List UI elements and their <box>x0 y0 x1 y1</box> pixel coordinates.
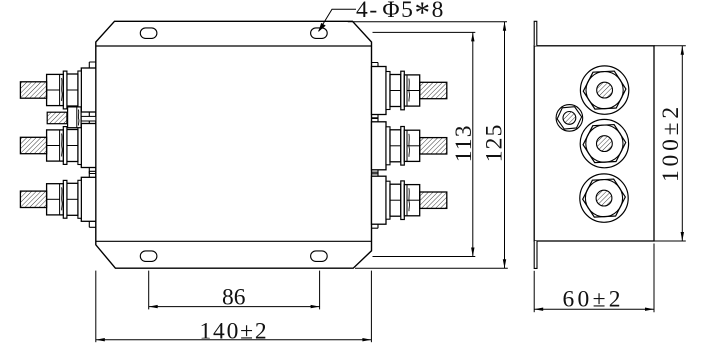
extension line 140 left <box>95 271 97 343</box>
ground stud outer circle <box>556 105 583 132</box>
mounting slot top-left <box>140 28 157 39</box>
extension line 60 left <box>533 271 535 312</box>
ground nut facet divider <box>76 107 78 128</box>
dimension line 100+-2 <box>681 46 683 241</box>
ground stud shaft <box>47 112 67 124</box>
bolt circle 1 <box>580 66 628 114</box>
bolt circle 2 <box>580 119 628 167</box>
ground stud cross-section (hatched) <box>563 112 576 125</box>
ground stud hex nut <box>68 107 82 128</box>
extension line 100 top <box>654 45 686 47</box>
terminal R3 <box>372 172 447 228</box>
svg-text:140±2: 140±2 <box>200 318 269 344</box>
extension line 140 right <box>370 271 372 343</box>
dimension line 113 <box>472 32 474 256</box>
dimension line 140 <box>96 339 372 341</box>
svg-text:60±2: 60±2 <box>563 286 624 312</box>
ground stud shank <box>81 116 96 121</box>
mounting slot top-right <box>311 28 328 39</box>
side body rectangle <box>534 46 654 241</box>
svg-text:113: 113 <box>451 124 477 162</box>
chassis outline octagon <box>96 21 372 268</box>
mounting plate tab top <box>534 21 537 46</box>
ground nut chamfer curve <box>77 110 80 126</box>
bottom flange separator line <box>96 240 372 242</box>
terminal L1 <box>20 62 95 118</box>
bolt circle 3 <box>580 174 628 222</box>
dimension line 60+-2 <box>534 308 654 310</box>
extension line 125 bottom <box>355 267 508 269</box>
ground bolt small circle <box>556 105 583 132</box>
leader arrowhead <box>318 23 326 32</box>
leader line <box>319 9 356 31</box>
extension line 86 left <box>148 271 150 310</box>
extension line 125 top <box>348 21 507 23</box>
extension line 86 right <box>319 271 321 310</box>
mounting slot bottom-left <box>140 251 157 262</box>
svg-text:125: 125 <box>482 123 508 162</box>
dimension line 125 <box>504 22 506 268</box>
mounting plate tab bottom <box>534 241 537 268</box>
top flange separator line <box>96 45 372 47</box>
terminal R2 <box>372 118 447 174</box>
ground stud hex nut <box>556 106 582 129</box>
terminal L3 <box>20 171 95 227</box>
terminal L2 <box>20 118 95 174</box>
extension line 113 top <box>373 31 476 33</box>
ground stud nut <box>68 107 96 128</box>
svg-text:86: 86 <box>222 285 246 311</box>
svg-text:100±2: 100±2 <box>658 103 684 182</box>
dimension line 86 <box>149 306 320 308</box>
extension line 60 right <box>653 244 655 313</box>
extension line 100 bottom <box>654 240 686 242</box>
mounting slot bottom-right <box>311 251 328 262</box>
terminal R1 <box>372 63 447 119</box>
extension line 113 bottom <box>373 256 476 258</box>
